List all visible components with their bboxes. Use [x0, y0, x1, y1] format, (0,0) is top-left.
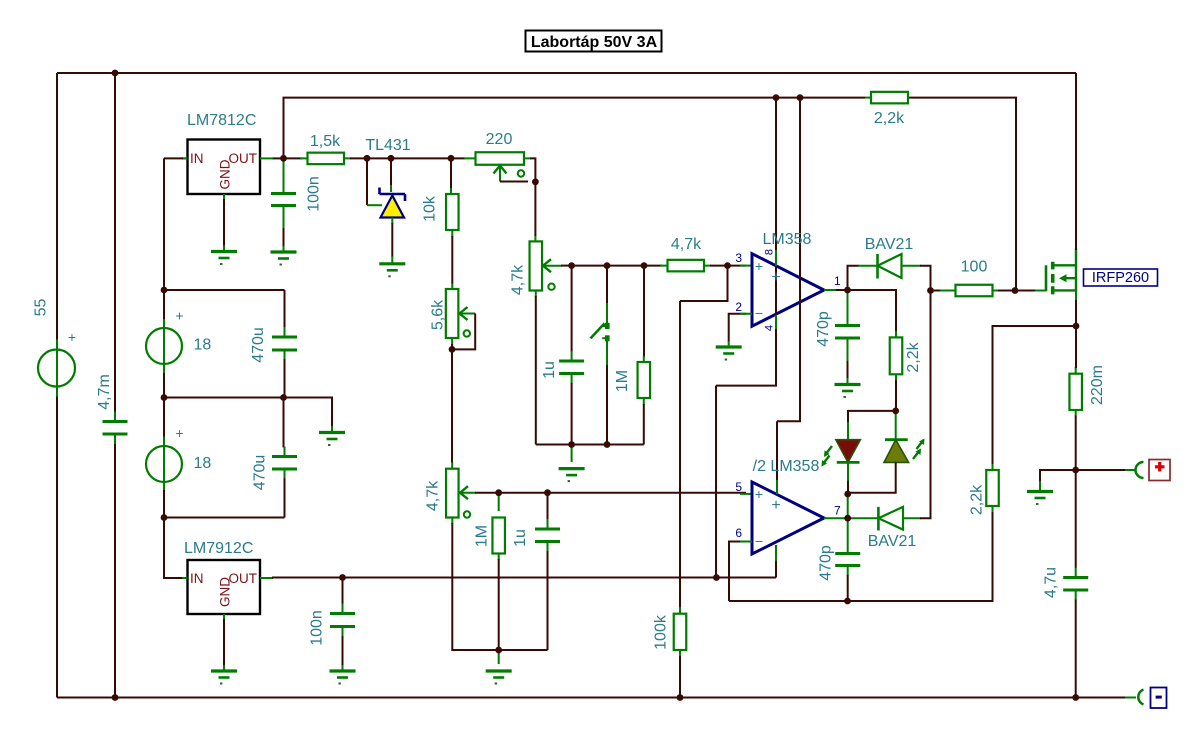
svg-text:5: 5 [735, 480, 742, 494]
resistor 100k [674, 614, 687, 650]
wire 10k to 5,6k [451, 236, 453, 284]
resistor 2,2k right [986, 470, 999, 506]
ground of rail 444 [559, 467, 585, 470]
svg-text:GND: GND [217, 577, 232, 607]
svg-text:BAV21: BAV21 [865, 236, 914, 253]
svg-text:5,6k: 5,6k [430, 299, 447, 330]
svg-text:TL431: TL431 [365, 137, 410, 154]
ground of 100n 7912 [330, 669, 356, 672]
wire source1 top lead [163, 290, 165, 320]
wire source2 top lead [163, 398, 165, 438]
wire rail 517 bottom [164, 517, 285, 519]
svg-text:4: 4 [763, 325, 775, 331]
svg-text:1u: 1u [512, 529, 529, 547]
connector - arc [1138, 690, 1143, 705]
svg-text:18: 18 [194, 455, 212, 472]
terminal + box [1149, 460, 1170, 481]
junction: junction op1 output [844, 287, 851, 294]
svg-text:1: 1 [834, 274, 841, 288]
regulator LM7912C box [188, 560, 261, 614]
wire left edge lower [56, 387, 58, 698]
capacitor 1u upper [559, 361, 584, 374]
junction: junction switch on rail [604, 441, 611, 448]
capacitor 4,7u [1063, 578, 1088, 591]
wire x452 down to lower pot [451, 349, 453, 463]
svg-text:470u: 470u [252, 455, 269, 491]
wire x800 rail [777, 98, 800, 422]
wire gate node to 100 [931, 290, 943, 292]
junction: junction source node [1073, 323, 1080, 330]
junction: junction 1u1 on rail [568, 441, 575, 448]
wire bottom rail [57, 697, 1125, 699]
wire OUT of 7812 [272, 157, 284, 159]
wire pin6 loop [729, 542, 742, 602]
svg-text:1u: 1u [541, 361, 558, 379]
resistor 2,2k mid [890, 337, 903, 374]
junction: junction -out node [1072, 694, 1079, 701]
voltage source 55 [38, 350, 75, 387]
svg-text:470p: 470p [815, 311, 832, 347]
svg-text:4,7k: 4,7k [425, 480, 442, 511]
voltage source 18 upper [146, 328, 182, 364]
wire GND 7912 down [223, 619, 225, 666]
capacitor 4,7m [103, 422, 128, 435]
wire rail 601 [729, 512, 993, 601]
wire 1u1 bottom [571, 383, 573, 445]
ground of rail 650 [486, 669, 512, 672]
wire 7912 IN [164, 518, 183, 579]
wire rail 397 (0V) [164, 398, 332, 428]
svg-text:+: + [755, 486, 763, 502]
capacitor 100n (7812 out) [271, 194, 296, 206]
junction: junction +12 rail b [797, 94, 804, 101]
ground of 0V rail [319, 431, 345, 434]
svg-text:−: − [755, 533, 763, 549]
wire led top left [848, 411, 896, 423]
svg-text:OUT: OUT [229, 571, 258, 586]
wire +out right [1076, 469, 1126, 471]
svg-text:7: 7 [834, 504, 841, 518]
wire led green bottom [848, 462, 896, 492]
svg-text:GND: GND [217, 159, 232, 189]
wire 4,7k lower bottom [452, 523, 547, 650]
junction: junction source1 top [161, 287, 168, 294]
svg-text:6: 6 [735, 526, 742, 540]
connector + arc [1136, 462, 1144, 478]
label box IRFP260 [1084, 269, 1158, 286]
wire switch top [606, 266, 608, 304]
junction: junction 100k bottom [677, 694, 684, 701]
svg-text:1M: 1M [614, 370, 631, 392]
resistor 220m [1069, 374, 1082, 410]
ground of LM7812C [211, 250, 237, 253]
svg-text:4,7u: 4,7u [1043, 567, 1060, 598]
svg-text:18: 18 [194, 337, 212, 354]
regulator LM7812C box [188, 140, 261, 195]
ground of 470p upper [835, 383, 861, 386]
wire 1M1 top [643, 266, 645, 357]
wire x680 long vertical [679, 301, 681, 608]
capacitor 470p upper [835, 326, 860, 339]
svg-text:/2 LM358: /2 LM358 [753, 458, 820, 475]
wire TL431 ref down [366, 158, 368, 205]
svg-text:100: 100 [961, 259, 988, 276]
svg-text:−: − [755, 305, 763, 321]
wire 220 right down [530, 158, 535, 181]
svg-text:470p: 470p [818, 545, 835, 581]
ground of + output [1027, 490, 1053, 493]
svg-text:IN: IN [190, 571, 204, 586]
svg-text:220: 220 [486, 131, 513, 148]
svg-text:+: + [771, 497, 780, 514]
LED red [847, 422, 849, 440]
wire op1 out up [848, 266, 860, 290]
wire rail -12V [272, 577, 776, 579]
svg-text:2,2k: 2,2k [874, 110, 905, 127]
wire 4,7k to pin3 junction [710, 265, 746, 267]
ground of 100n 7812 [271, 250, 297, 253]
svg-text:100n: 100n [309, 610, 326, 646]
wire 5,6k bottom [451, 344, 453, 349]
capacitor 470u lower [272, 457, 297, 470]
wire IN of 7812 to x164 [183, 157, 188, 159]
resistor 1M upper [638, 362, 651, 398]
junction: junction rail397 cap [280, 394, 287, 401]
junction: junction OUT 7812 [280, 155, 287, 162]
op-amp U1 LM358 triangle [752, 254, 824, 327]
svg-text:1M: 1M [473, 525, 490, 547]
wire 4,7u bottom [1075, 600, 1077, 698]
wire 100 to gate [998, 290, 1036, 292]
wire x716 down [715, 386, 717, 578]
svg-text:8: 8 [763, 249, 775, 255]
title box Labortap 50V 3A [526, 31, 662, 52]
wire 470u2 bottom [284, 478, 286, 518]
junction: junction op2 output [844, 515, 851, 522]
wire BAV21-1 right down [920, 266, 931, 291]
wire 470u1 top [284, 290, 286, 328]
junction: junction top-left [112, 70, 119, 77]
wire node row [572, 265, 662, 267]
svg-text:OUT: OUT [229, 151, 258, 166]
junction: junction +12 rail a [773, 94, 780, 101]
junction: junction gate node [927, 287, 934, 294]
wiper of pot 4,7k upper [542, 265, 562, 267]
resistor 10k [446, 194, 459, 230]
resistor 1,5k [308, 153, 345, 165]
wire OUT up to top rail 2 [284, 98, 866, 159]
svg-text:LM7812C: LM7812C [187, 112, 256, 129]
junction: node switch top [604, 262, 611, 269]
resistor 1M lower [492, 518, 505, 554]
resistor 100 [956, 285, 993, 297]
wire 470p2 bottom [847, 575, 849, 601]
junction: junction bottom x115 [112, 694, 119, 701]
wire 1u2 bottom [547, 551, 549, 650]
svg-text:100n: 100n [306, 176, 323, 212]
wire op1 output [836, 289, 848, 291]
wire wiper to node row [561, 265, 572, 267]
svg-text:10k: 10k [422, 195, 439, 222]
svg-text:2: 2 [735, 300, 742, 314]
wire led node chain [847, 494, 849, 497]
wire x777 to op2 pin8 [776, 421, 778, 487]
wire 5,6k wiper loop [452, 314, 475, 350]
junction: junction led node [844, 491, 851, 498]
svg-text:4,7k: 4,7k [510, 264, 527, 295]
wire 4,7k upper bottom down [535, 296, 537, 445]
LED green emission arrows [913, 440, 924, 459]
junction: junction rail397 left [161, 394, 168, 401]
wire 100n1 to ground [283, 226, 285, 248]
capacitor 100n (7912) [330, 614, 355, 627]
junction: node wiper junction [568, 262, 575, 269]
svg-text:+: + [755, 258, 763, 274]
svg-text:IN: IN [190, 151, 204, 166]
wire pin2 to ground [729, 314, 746, 342]
switch (open) [606, 303, 608, 323]
svg-text:+: + [771, 269, 780, 286]
svg-text:470u: 470u [250, 327, 267, 363]
wire 1M2 bottom [498, 559, 500, 650]
wire 470u2 top [283, 398, 285, 448]
svg-text:+: + [68, 329, 76, 345]
wiper of pot 220 [499, 166, 501, 182]
svg-text:4,7k: 4,7k [671, 236, 702, 253]
diode BAV21 upper [876, 254, 879, 279]
wire 220m top [1075, 326, 1077, 368]
op-amp U2 half LM358 triangle [752, 482, 824, 554]
junction: junction source2 bottom [161, 514, 168, 521]
wire pin3 node down-left [680, 266, 728, 301]
potentiometer 5,6k [446, 289, 459, 338]
junction: junction gate vert [1012, 287, 1019, 294]
wire dot to 1,5k [284, 157, 303, 159]
capacitor 470u upper [272, 337, 297, 350]
junction: junction 5,6k bottom [449, 346, 456, 353]
wire +out left to ground [1040, 470, 1076, 482]
wire 100n2 top [342, 578, 344, 605]
wire GND 7812 down [223, 199, 225, 246]
wire rail 444 [536, 444, 644, 446]
wire 470u1 bottom [284, 359, 286, 398]
wire 10k top [450, 158, 452, 189]
wire switch bottom [606, 365, 608, 445]
wiper of pot 5,6k [459, 313, 476, 315]
terminal - box [1151, 688, 1167, 709]
junction: junction pin3 node [724, 262, 731, 269]
wire x1016 from 2,2k [908, 98, 1016, 291]
ground of pin2 [716, 345, 742, 348]
svg-text:IRFP260: IRFP260 [1092, 270, 1149, 286]
junction: junction led top [892, 408, 899, 415]
TL431 symbol [367, 204, 382, 206]
wire BAV21-2 up x930 [920, 291, 931, 519]
wire x115 vertical lower [114, 444, 116, 698]
wire source to 2,2k right [993, 326, 1077, 465]
wire source1 bottom lead [163, 373, 165, 398]
diode BAV21 lower [877, 507, 880, 531]
svg-text:Labortáp 50V 3A: Labortáp 50V 3A [531, 34, 658, 51]
wire 100k bottom [679, 656, 681, 698]
svg-text:2,2k: 2,2k [969, 484, 986, 515]
resistor 2,2k top [871, 92, 908, 104]
resistor 4,7k (to pin3) [668, 260, 705, 272]
LED red emission arrows [823, 446, 833, 465]
potentiometer 220 [476, 152, 525, 165]
wire op2 bottom power [775, 560, 777, 578]
wire drain up [1075, 73, 1077, 250]
svg-text:BAV21: BAV21 [868, 533, 917, 550]
wire 100n2 bottom [342, 636, 344, 666]
wire x164 down from IN [164, 158, 183, 290]
junction: node 1M top [641, 262, 648, 269]
wire 470p1 to ground [847, 361, 849, 379]
junction: junction +out node [1072, 467, 1079, 474]
svg-text:LM358: LM358 [763, 231, 812, 248]
junction: junction 10k top [448, 155, 455, 162]
wire led red bottom [847, 481, 849, 494]
svg-text:4,7m: 4,7m [96, 374, 113, 410]
transistor IRFP260 MOSFET [1045, 265, 1048, 291]
wiper of pot 4,7k lower [459, 492, 476, 494]
svg-text:2,2k: 2,2k [905, 341, 922, 372]
LED green [895, 411, 897, 440]
svg-text:100k: 100k [653, 614, 670, 650]
junction: junction 1u2 top [544, 489, 551, 496]
potentiometer 4,7k lower [446, 469, 459, 518]
wire x776 rail [716, 98, 776, 386]
ground of TL431 [379, 262, 405, 265]
junction: junction 100n2 [339, 574, 346, 581]
wire op1 out to 2,2k mid [848, 290, 897, 332]
junction: junction TL431 ref [364, 155, 371, 162]
ground of LM7912C [211, 669, 237, 672]
wire 220 to 4,7k upper [534, 182, 536, 236]
junction: junction x716 end [713, 574, 720, 581]
wire source down [1075, 300, 1077, 326]
svg-text:+: + [175, 425, 183, 441]
wire 1u2 top [547, 493, 549, 520]
svg-text:1,5k: 1,5k [310, 133, 341, 150]
potentiometer 4,7k upper [530, 241, 543, 290]
junction: junction 220 wiper [532, 178, 539, 185]
svg-text:+: + [175, 308, 183, 324]
junction: junction TL431 cathode [388, 155, 395, 162]
wire 1,5k to 220 row [350, 157, 465, 159]
svg-text:55: 55 [33, 299, 50, 317]
wire rail 290 left [164, 289, 285, 291]
wire 4,7u top [1075, 470, 1077, 568]
capacitor 470p lower [835, 554, 860, 566]
wire 1u1 top [571, 266, 573, 352]
wire top rail [57, 72, 1076, 74]
voltage source 18 lower [146, 446, 182, 482]
junction: junction rail 650 [495, 647, 502, 654]
capacitor 1u lower [535, 529, 560, 542]
wire 1M1 bottom [643, 404, 645, 445]
svg-text:3: 3 [735, 251, 742, 265]
wire wiper rail to pin5 [475, 492, 746, 494]
svg-text:220m: 220m [1089, 365, 1106, 405]
junction: junction 1M2 top [495, 489, 502, 496]
wire 220m bottom [1075, 416, 1077, 471]
wire left edge [56, 73, 58, 350]
wire source2 bottom lead [163, 490, 165, 518]
wire x115 vertical upper [114, 73, 116, 412]
svg-text:LM7912C: LM7912C [184, 540, 253, 557]
wire 2,2k mid bottom [895, 380, 897, 411]
junction: junction 470p2 bottom [844, 598, 851, 605]
wire TL431 anode down [391, 223, 393, 257]
